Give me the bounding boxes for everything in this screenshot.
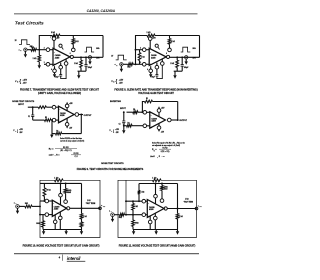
svg-text:Limit f: Limit f — [150, 155, 155, 158]
footer logo underline — [67, 260, 86, 263]
wire triangle to pin 5 fig8 — [161, 59, 163, 62]
op-amp U1 — [53, 48, 70, 65]
wire divider left leg down — [135, 50, 137, 65]
wire pin minus stub fig9a — [56, 119, 59, 121]
wire triangle to pin 4 — [54, 66, 56, 69]
wire to node — [37, 49, 40, 51]
svg-text:intersil: intersil — [67, 256, 81, 261]
bottom rail fig11 — [133, 229, 178, 231]
wire inner to node fig11 — [138, 194, 140, 201]
resistor RL 2k load — [80, 57, 82, 60]
svg-text:S: S — [113, 82, 114, 84]
ground generator fig8 — [120, 66, 122, 69]
resistor R2 below node — [38, 50, 40, 55]
ground input fig10 — [17, 208, 19, 210]
svg-text:R3: R3 — [128, 123, 130, 125]
wire pin3 left stub — [44, 63, 47, 65]
wire R2 to pin fig9b — [138, 111, 143, 113]
upper wire fig11 — [126, 200, 142, 202]
ground bottom 1 fig10 — [43, 230, 45, 232]
svg-text:-15V: -15V — [115, 132, 118, 134]
wire C1 to R2 fig9a — [33, 119, 45, 121]
ground input fig11 — [112, 217, 114, 219]
svg-text:56pF: 56pF — [152, 76, 155, 78]
svg-text:-: - — [53, 203, 54, 206]
op-amp U5 — [52, 200, 66, 216]
resistor bias fig10 — [65, 183, 67, 188]
resistor R3 fig9b — [127, 124, 132, 127]
wire triangle to pin 1 — [60, 63, 62, 66]
resistor R2 fig9a — [45, 119, 52, 122]
svg-text:NOISE TEST CIRCUITS: NOISE TEST CIRCUITS — [12, 101, 35, 103]
wire feedback down fig9a — [51, 120, 53, 134]
output probe terminal fig8 — [185, 56, 188, 59]
svg-text:+15V: +15V — [119, 79, 124, 81]
svg-text:2 kΩ: 2 kΩ — [171, 41, 175, 43]
wire pin minus stub fig9b — [146, 111, 150, 113]
V+ lead fig9a — [66, 103, 68, 105]
resistor bottom-left fig10 — [42, 215, 44, 221]
wire pin5 down fig11 — [149, 224, 151, 230]
svg-text:100pF: 100pF — [88, 67, 93, 69]
wire divider lower stub — [136, 63, 143, 65]
resistor RS fig8 — [128, 63, 134, 66]
svg-text:2: 2 — [44, 48, 45, 50]
pin 1 circle fig10 — [64, 200, 68, 204]
svg-text:C1 f: C1 f — [74, 156, 78, 158]
wire output fig11 — [167, 208, 196, 210]
resistor R1 feedback fig9b — [145, 100, 153, 103]
svg-text:+15V: +15V — [161, 108, 165, 110]
wire pin7 to triangle fig10 — [60, 197, 62, 205]
svg-text:(UNITY GAIN, VOLTAGE FOLLOWER): (UNITY GAIN, VOLTAGE FOLLOWER) — [38, 92, 81, 95]
pin V+ circle fig9b — [157, 109, 161, 113]
output waveform glyph — [85, 47, 95, 52]
capacitor CL fig8 — [181, 57, 183, 64]
resistor R2 fig9b — [133, 111, 138, 114]
wire pin2 stub fig10 — [48, 200, 52, 202]
wire generator to RS fig8 — [123, 63, 128, 65]
svg-text:FIGURE 11. NOISE VOLTAGE TEST: FIGURE 11. NOISE VOLTAGE TEST CIRCUIT (4… — [119, 244, 196, 247]
wire cap to R3 fig9b — [124, 125, 127, 127]
wire pin4 down fig10 — [59, 219, 61, 229]
pin 5 circle comp fig8 — [161, 62, 165, 66]
pin 7 circle fig11 — [154, 194, 158, 198]
wire bias to pin fig10 — [65, 193, 67, 200]
wire output fig10 — [70, 207, 100, 209]
svg-text:CA3260, CA3260A: CA3260, CA3260A — [87, 9, 116, 13]
pin output circle fig9a — [75, 113, 79, 117]
feedback right leg fig11 — [177, 184, 179, 209]
V+ lead fig9b — [158, 107, 160, 109]
svg-text:{: { — [115, 79, 117, 85]
resistor R3 fig8 — [168, 39, 171, 45]
svg-text:Select R2/R3 so that the bias: Select R2/R3 so that the bias — [60, 137, 82, 140]
divider resistor fig11 — [132, 200, 134, 202]
output port circle fig11 — [195, 207, 198, 210]
wire pin 7 to triangle — [53, 40, 55, 49]
svg-text:(R1 + R2) f C1: (R1 + R2) f C1 — [60, 150, 71, 152]
svg-text:-: - — [54, 51, 55, 54]
junction RL — [80, 56, 82, 58]
svg-text:2 kΩ: 2 kΩ — [147, 32, 151, 34]
ground bottom 2 fig11 — [155, 230, 157, 232]
compensation capacitor C1 — [60, 69, 62, 75]
wire pin2 stub fig8 — [146, 49, 150, 51]
V- lead fig9a — [66, 126, 68, 128]
ground below generator — [24, 51, 26, 54]
wire pin plus stub fig9a — [56, 106, 59, 108]
inner left vertical fig11 — [125, 180, 127, 214]
wire output leg up fig9a — [80, 115, 82, 134]
generator terminal fig8 — [120, 63, 123, 66]
wire RL to rail — [80, 68, 82, 72]
feedback wire right fig9b — [153, 101, 178, 103]
wire output fig9b — [171, 119, 179, 121]
pin minus circle fig9a — [52, 118, 56, 122]
junction feedback output fig10 — [81, 207, 83, 209]
svg-text:and f: and f — [49, 154, 54, 156]
wire feedback rail fig9a — [52, 133, 56, 135]
svg-text:C1: C1 — [119, 124, 121, 126]
pin 2 circle inverting input — [46, 48, 50, 52]
ground symbol rail — [78, 71, 80, 75]
wire feedback right leg fig10 — [81, 183, 83, 208]
svg-text:100pF: 100pF — [184, 67, 189, 69]
wire output fig8 — [170, 56, 200, 58]
resistor feedback on box edge fig10 — [55, 179, 64, 182]
wire pin4 down fig11 — [154, 220, 156, 230]
pin plus circle fig9b — [143, 124, 147, 128]
ground bottom 3 fig10 — [81, 230, 83, 232]
junction CL — [85, 56, 87, 58]
svg-text:2 kΩ: 2 kΩ — [74, 63, 78, 65]
pin 3 circle fig8 — [142, 63, 146, 67]
resistor inner fig11 — [138, 190, 141, 194]
wire pin1 fig8 — [156, 63, 158, 66]
wire pin3 stub fig10 — [48, 214, 52, 216]
wire cap down to ground fig9b — [123, 126, 125, 131]
wire pin plus stub fig9b — [146, 125, 150, 127]
pin 8 circle fig8 — [168, 48, 172, 52]
svg-text:+15V: +15V — [19, 129, 23, 131]
generator terminal — [24, 48, 27, 51]
resistor feedback on box edge fig11 — [153, 179, 162, 182]
output waveform glyph fig8 — [181, 47, 191, 52]
svg-text:OUTPUT: OUTPUT — [84, 115, 93, 117]
svg-text:FIGURE 9. TEST CIRCUITS FOR NO: FIGURE 9. TEST CIRCUITS FOR NOISE MEASUR… — [77, 168, 144, 171]
svg-text:FIGURE 10. NOISE VOLTAGE TEST: FIGURE 10. NOISE VOLTAGE TEST CIRCUIT (F… — [23, 244, 100, 247]
svg-text:+15V: +15V — [23, 79, 28, 81]
pin minus circle fig9b — [143, 111, 147, 115]
wire to pin8 fig8 — [169, 44, 171, 48]
svg-text:R2: R2 — [133, 109, 135, 111]
capacitor C1 column fig9b — [123, 112, 125, 121]
capacitor CL — [85, 57, 87, 64]
wire feedback top fig8 — [136, 36, 148, 50]
node junction at input — [38, 49, 40, 51]
svg-text:OUTPUT: OUTPUT — [179, 120, 188, 122]
pin 5 circle fig11 — [148, 220, 152, 224]
pin 2 circle fig8 — [142, 48, 146, 52]
divider resistor R1 fig8 — [139, 50, 141, 53]
pin 4 circle fig11 — [154, 216, 158, 220]
wire generator to resistor — [27, 49, 31, 51]
ground under probe fig8 — [185, 59, 187, 61]
wire branch to pin 8 — [72, 36, 74, 39]
pin 6 output circle fig11 — [164, 207, 167, 210]
output probe terminal — [88, 56, 91, 59]
wire pin2 stub fig11 — [145, 200, 147, 202]
op-amp U4 — [150, 112, 166, 128]
wire feedback right leg fig8 — [199, 36, 201, 58]
junction output fig9b — [177, 119, 179, 121]
resistor below divider fig11 — [132, 215, 134, 220]
wire R3 to pin fig9a — [46, 106, 52, 108]
pin 2 circle fig10 — [45, 199, 49, 203]
pin 7 circle V+ — [52, 37, 56, 41]
footer separator bar — [62, 255, 64, 261]
shield box fig11 — [118, 180, 197, 237]
svg-text:NOISE TEST CIRCUITS: NOISE TEST CIRCUITS — [101, 163, 124, 165]
wire input fig11 — [114, 214, 119, 216]
svg-text:-15V: -15V — [69, 127, 72, 129]
svg-text:R1: R1 — [56, 130, 58, 132]
resistor below output fig10 — [81, 208, 83, 213]
ground cap fig9b — [122, 130, 125, 133]
wire R1 to output leg fig9a — [62, 133, 82, 135]
wire input fig9b — [127, 111, 133, 113]
node upper divider fig8 — [135, 49, 137, 51]
shield box fig10 — [40, 180, 100, 237]
junction feedback left fig9b — [141, 111, 143, 113]
wire output fig9a — [78, 114, 83, 116]
svg-text:VOLTAGE GAIN TEST CIRCUIT: VOLTAGE GAIN TEST CIRCUIT — [138, 92, 174, 95]
junction feedback output fig11 — [177, 208, 179, 210]
wire R3 to pin 8 — [72, 44, 74, 48]
pin 1 circle fig11 — [160, 199, 164, 203]
wire bias to pin fig11 — [161, 191, 163, 200]
wire pin7 fig10 — [60, 183, 62, 193]
bias resistor right fig11 — [161, 184, 163, 186]
bottom rail fig10 — [43, 229, 82, 231]
svg-text:INPUT: INPUT — [120, 108, 127, 110]
svg-text:56pF: 56pF — [55, 76, 58, 78]
wire output — [73, 56, 103, 58]
junction CL fig8 — [181, 56, 183, 58]
pin 7 circle fig8 — [148, 37, 152, 41]
ground rail fig8 — [174, 70, 183, 72]
wire triangle to pin 5 — [65, 59, 67, 62]
pin 8 circle — [72, 48, 76, 52]
svg-text:“50Ω” TERM: “50Ω” TERM — [86, 203, 96, 205]
supply rail fig10 — [40, 182, 82, 184]
wire node to pin 2 — [39, 49, 46, 51]
junction feedback fig9a — [51, 119, 53, 121]
junction RL fig8 — [176, 56, 178, 58]
wire pin 7 up — [53, 36, 55, 38]
svg-text:-: - — [150, 51, 151, 54]
feedback top wire fig9b — [142, 102, 144, 113]
resistor source fig10 — [25, 205, 32, 208]
pin 3 circle fig11 — [142, 213, 146, 217]
pin 6 output circle fig10 — [67, 207, 70, 210]
svg-text:3: 3 — [44, 62, 45, 64]
svg-text:6: 6 — [70, 53, 71, 55]
resistor R1 feedback fig9a — [56, 132, 62, 135]
resistor RL fig8 — [176, 57, 178, 60]
wire pin7 up fig8 — [149, 36, 151, 38]
svg-text:f (R1 + R2): f (R1 + R2) — [161, 151, 170, 153]
svg-text:R1: R1 — [146, 98, 148, 100]
wire input fig10 — [19, 205, 25, 207]
resistor R3 strobe — [72, 39, 75, 45]
svg-text:current at amp output is 0 (5m: current at amp output is 0 (5mV) — [60, 140, 85, 143]
wire feedback top — [39, 36, 52, 50]
wire input fig9a — [28, 106, 38, 108]
pin 2 circle fig11 — [142, 199, 146, 203]
junction output fig9a — [80, 114, 82, 116]
svg-text:-: - — [59, 109, 60, 112]
resistor source fig11 — [120, 213, 125, 216]
pulse input waveform glyph — [19, 40, 30, 45]
op-amp U3 — [59, 106, 75, 123]
V- lead fig9b — [158, 129, 160, 131]
V- ground lead — [54, 73, 56, 75]
V- ground lead fig8 — [150, 73, 152, 75]
svg-text:2 kΩ: 2 kΩ — [33, 58, 37, 60]
svg-text:INVERTING: INVERTING — [110, 101, 121, 103]
resistor below output fig11 — [177, 209, 179, 214]
op-amp U2 — [149, 48, 166, 65]
resistor R3 fig9a — [38, 106, 46, 109]
svg-text:+15V: +15V — [115, 129, 119, 131]
wire input inside fig11 — [125, 214, 143, 216]
node input fig8 — [135, 63, 137, 65]
svg-text:-: - — [148, 202, 149, 205]
wire RS to node fig8 — [133, 63, 135, 65]
wire left edge to pin3 fig10 — [40, 214, 45, 216]
pin 4 circle fig8 — [149, 69, 153, 73]
pin output circle fig9b — [168, 118, 172, 122]
svg-text:Select R3 equal to R1 R2 / (R1: Select R3 equal to R1 R2 / (R1 + R2) so … — [152, 141, 185, 144]
wire pin5 down fig10 — [54, 223, 56, 229]
pin 6 output circle fig8 — [166, 55, 169, 58]
wire pin3 stub fig11 — [145, 214, 147, 216]
wire feedback right leg — [102, 36, 104, 58]
pin 3 circle non-inverting input — [46, 63, 50, 67]
svg-text:S: S — [17, 82, 18, 84]
input terminal fig10 — [16, 205, 20, 209]
pin 3 circle fig10 — [45, 213, 49, 217]
resistor RF 2k — [52, 34, 60, 37]
footer rule — [14, 253, 199, 254]
compensation capacitor fig8 — [156, 69, 158, 75]
svg-text:2 kΩ: 2 kΩ — [51, 32, 55, 34]
resistor lower fig10 — [81, 219, 83, 222]
wire R4 to input fig10 — [43, 196, 45, 201]
svg-text:2 kΩ: 2 kΩ — [170, 63, 174, 65]
svg-text:INPUT: INPUT — [18, 104, 25, 106]
svg-text:Test Circuits: Test Circuits — [15, 20, 44, 26]
pin 1 circle fig8 — [155, 65, 159, 69]
pin 5 circle on hypotenuse fig8 — [155, 44, 158, 47]
pin 6 output circle — [70, 55, 73, 58]
ground bottom 2 fig10 — [65, 230, 67, 232]
svg-text:OUT: OUT — [103, 206, 106, 208]
svg-text:2 kΩ: 2 kΩ — [75, 41, 79, 43]
wire branch pin8 fig8 — [169, 36, 171, 39]
junction rail 2 fig10 — [65, 182, 67, 184]
svg-text:OUT: OUT — [199, 206, 202, 208]
pin 1 circle offset — [59, 65, 63, 69]
svg-text:“50Ω” TERM: “50Ω” TERM — [184, 201, 194, 203]
junction divider fig11 — [132, 214, 134, 216]
junction C1 on input wire fig9a — [32, 106, 34, 108]
svg-text:90 kΩ: 90 kΩ — [46, 190, 51, 192]
ground bottom 1 fig11 — [133, 230, 135, 232]
header rule — [14, 12, 198, 15]
ground below R2 — [38, 62, 40, 66]
svg-text:C1: C1 — [28, 116, 30, 118]
ground rail figure7 — [78, 70, 87, 72]
pin V- circle fig9b — [157, 126, 161, 130]
pin 5 circle comp — [64, 62, 68, 66]
junction rail 1 fig10 — [60, 182, 62, 184]
inner rail fig11 — [139, 183, 178, 185]
pin 4 circle V- — [53, 69, 57, 73]
pin 5 circle on hypotenuse — [59, 44, 62, 47]
wire pin3 stub — [50, 63, 54, 65]
input terminal fig11 — [111, 213, 115, 217]
wire R3 to pin plus fig9b — [132, 125, 143, 127]
svg-text:-: - — [151, 114, 152, 117]
svg-text:-15V: -15V — [161, 132, 164, 134]
wire pin4 fig8 — [150, 66, 152, 69]
svg-text:{: { — [19, 79, 21, 85]
resistor RF fig8 — [147, 34, 155, 37]
pin plus circle fig9a — [52, 105, 56, 109]
svg-text:R2: R2 — [45, 117, 47, 119]
op-amp U6 — [147, 200, 164, 218]
wire pin3 stub fig8 — [146, 63, 150, 65]
wire left edge to pin2 fig10 — [40, 200, 45, 202]
wire to box fig10 — [32, 205, 40, 207]
junction C1 fig9b — [123, 111, 125, 113]
wire pin7 fig8 — [149, 40, 151, 49]
output port circle fig10 — [99, 207, 102, 210]
svg-text:+15V: +15V — [69, 103, 73, 105]
ground at feedback corner fig9a — [51, 134, 53, 135]
resistor RS 50 ohm — [31, 48, 37, 51]
resistor R4 inner fig10 — [43, 183, 45, 187]
pin V+ circle fig9a — [65, 104, 69, 108]
capacitor C1 input fig9a — [32, 107, 34, 115]
pin 5 circle fig10 — [53, 220, 57, 224]
ground bottom 3 fig11 — [177, 230, 179, 232]
wire divider upper stub — [136, 49, 143, 51]
pin 4 circle fig10 — [59, 216, 63, 220]
svg-text:-15V: -15V — [19, 132, 22, 134]
wire box edge input span fig10 — [39, 201, 41, 215]
pulse input glyph fig8 — [116, 55, 127, 60]
ground under probe — [89, 59, 91, 61]
wire pin2 stub — [50, 49, 54, 51]
pin 7 circle fig10 — [59, 193, 63, 197]
pin V- circle fig9a — [65, 123, 69, 127]
